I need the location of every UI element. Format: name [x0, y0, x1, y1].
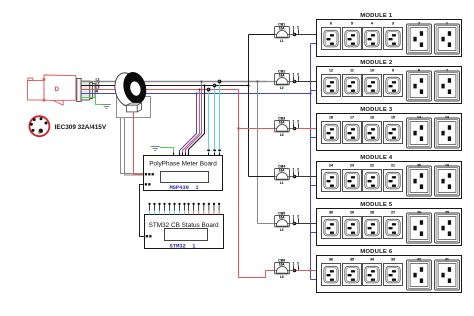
- outlet 33 (C13): [384, 258, 403, 286]
- svg-text:16A: 16A: [279, 216, 286, 220]
- voltage sense cyan wires: [208, 90, 210, 156]
- svg-text:12: 12: [329, 69, 333, 73]
- svg-text:L3: L3: [280, 133, 284, 137]
- svg-text:PolyPhase Meter Board: PolyPhase Meter Board: [149, 161, 217, 168]
- svg-text:2: 2: [297, 262, 299, 266]
- svg-text:2: 2: [297, 215, 299, 219]
- svg-text:MODULE 3: MODULE 3: [360, 107, 393, 113]
- module 5 outlet board: [317, 202, 462, 245]
- CT mounting box: [117, 97, 151, 118]
- STM32 CB Status Board U3: [145, 215, 224, 250]
- pin 12: [203, 203, 205, 215]
- svg-text:IEC309 32A/415V: IEC309 32A/415V: [55, 124, 107, 131]
- svg-text:34: 34: [370, 258, 374, 262]
- svg-text:10: 10: [370, 69, 374, 73]
- module 2 outlet board: [317, 60, 462, 103]
- node L2: [218, 80, 222, 84]
- node L1: [213, 84, 217, 88]
- outlet 32 (C19): [407, 258, 432, 291]
- outlet 12 (C13): [322, 69, 341, 97]
- wire L2 (grey phase): [81, 81, 267, 83]
- svg-text:9: 9: [392, 69, 394, 73]
- outlet 31 (C19): [435, 258, 460, 291]
- outlet 2 (C19): [407, 22, 432, 55]
- svg-text:21: 21: [391, 164, 395, 168]
- STM32 left pins: [146, 235, 152, 237]
- svg-text:2: 2: [297, 120, 299, 124]
- outlet 29 (C13): [343, 211, 362, 239]
- outlet 24 (C13): [322, 164, 341, 192]
- circuit breaker CB1 16A L1: [249, 22, 318, 43]
- green earth wire to meter board: [160, 148, 174, 156]
- svg-text:8: 8: [418, 69, 420, 73]
- outlet 21 (C13): [384, 164, 403, 192]
- module 3 outlet board: [317, 107, 462, 150]
- module 6 outlet board: [317, 249, 462, 292]
- module 1 outlet board: [317, 13, 462, 56]
- svg-text:1: 1: [293, 215, 295, 219]
- outlet 16 (C13): [363, 116, 382, 144]
- svg-text:24: 24: [329, 164, 333, 168]
- svg-text:2: 2: [297, 73, 299, 77]
- svg-text:L2: L2: [280, 228, 284, 232]
- svg-text:11: 11: [350, 69, 354, 73]
- svg-text:35: 35: [350, 258, 354, 262]
- svg-text:16A: 16A: [279, 121, 286, 125]
- svg-text:MODULE 5: MODULE 5: [360, 202, 393, 208]
- svg-text:6: 6: [330, 22, 332, 26]
- wire L1 (black phase): [81, 85, 249, 87]
- neutral bus vertical: [310, 44, 312, 280]
- svg-text:20: 20: [417, 164, 421, 168]
- outlet 20 (C19): [407, 164, 432, 197]
- svg-text:30: 30: [329, 211, 333, 215]
- outlet 4 (C13): [363, 22, 382, 50]
- pin 14: [213, 203, 215, 215]
- pin 1: [148, 203, 150, 215]
- svg-text:16A: 16A: [279, 74, 286, 78]
- svg-text:15: 15: [391, 116, 395, 120]
- svg-text:MSP430 1: MSP430 1: [169, 185, 198, 191]
- wire L3 (red phase): [81, 89, 239, 91]
- svg-text:17: 17: [350, 116, 354, 120]
- outlet 11 (C13): [343, 69, 362, 97]
- svg-text:D: D: [55, 87, 60, 93]
- svg-text:L3: L3: [280, 275, 284, 279]
- svg-text:N: N: [96, 90, 99, 94]
- svg-text:STM32 CB Status Board: STM32 CB Status Board: [149, 222, 219, 229]
- svg-text:25: 25: [445, 211, 449, 215]
- pin 10: [192, 203, 194, 215]
- svg-text:16A: 16A: [279, 27, 286, 31]
- outlet 28 (C13): [363, 211, 382, 239]
- svg-text:36: 36: [329, 258, 333, 262]
- L1 feeder vertical to CB1/CB4: [248, 35, 250, 177]
- PolyPhase Meter Board U2: [144, 156, 223, 191]
- outlet 5 (C13): [343, 22, 362, 50]
- CT secondary wire pair: [121, 118, 144, 174]
- earth symbol (meter board): [151, 147, 160, 151]
- svg-text:L1: L1: [280, 39, 284, 43]
- svg-text:2: 2: [297, 168, 299, 172]
- pin 7: [178, 203, 180, 215]
- meter board top pins: [173, 150, 221, 156]
- pin 2: [153, 203, 155, 215]
- svg-text:4: 4: [371, 22, 373, 26]
- svg-text:16: 16: [370, 116, 374, 120]
- outlet 3 (C13): [384, 22, 403, 50]
- svg-text:MODULE 1: MODULE 1: [360, 13, 393, 19]
- outlet 36 (C13): [322, 258, 341, 286]
- pin 6: [173, 203, 175, 215]
- svg-text:26: 26: [417, 211, 421, 215]
- circuit breaker CB4 16A L1: [249, 164, 318, 185]
- pin 11: [198, 203, 200, 215]
- meter board left pins row1: [145, 173, 154, 175]
- outlet 17 (C13): [343, 116, 362, 144]
- circuit breaker CB6 16A L3: [266, 258, 318, 279]
- svg-text:19: 19: [445, 164, 449, 168]
- svg-text:L1: L1: [280, 181, 284, 185]
- IEC309 connector face: [29, 116, 49, 136]
- svg-text:1: 1: [446, 22, 448, 26]
- circuit breaker CB2 16A L2: [267, 69, 318, 90]
- svg-text:1: 1: [293, 26, 295, 30]
- svg-text:1: 1: [293, 120, 295, 124]
- circuit breaker CB3 16A L3: [239, 116, 318, 137]
- outlet 9 (C13): [384, 69, 403, 97]
- svg-text:2: 2: [418, 22, 420, 26]
- outlet 7 (C19): [435, 69, 460, 102]
- svg-text:16A: 16A: [279, 263, 286, 267]
- outlet 35 (C13): [343, 258, 362, 286]
- tap L3 to meter (red): [183, 90, 200, 156]
- svg-text:1: 1: [293, 73, 295, 77]
- svg-text:2: 2: [297, 26, 299, 30]
- svg-text:MODULE 2: MODULE 2: [360, 60, 393, 66]
- svg-text:18: 18: [329, 116, 333, 120]
- IEC309 plug P1: [28, 75, 79, 105]
- neutral taps into modules: [311, 43, 318, 45]
- outlet 13 (C19): [435, 116, 460, 149]
- pin 9: [187, 203, 189, 215]
- pin 5: [168, 203, 170, 215]
- outlet 30 (C13): [322, 211, 341, 239]
- circuit breaker CB5 16A L2: [258, 211, 318, 232]
- svg-text:22: 22: [370, 164, 374, 168]
- svg-text:STM32 1: STM32 1: [170, 243, 196, 249]
- L2 feeder vertical to CB5: [257, 82, 259, 224]
- svg-text:5: 5: [351, 22, 353, 26]
- outlet 19 (C19): [435, 164, 460, 197]
- outlet 1 (C19): [435, 22, 460, 55]
- svg-text:MODULE 6: MODULE 6: [360, 249, 393, 255]
- svg-text:13: 13: [445, 116, 449, 120]
- svg-text:32: 32: [417, 258, 421, 262]
- svg-text:7: 7: [446, 69, 448, 73]
- outlet 26 (C19): [407, 211, 432, 244]
- outlet 27 (C13): [384, 211, 403, 239]
- svg-text:16A: 16A: [279, 169, 286, 173]
- svg-text:1: 1: [293, 262, 295, 266]
- wire N (blue neutral): [81, 93, 311, 95]
- pin 8: [183, 203, 185, 215]
- wire E (green earth): [81, 98, 106, 105]
- svg-text:29: 29: [350, 211, 354, 215]
- svg-text:MODULE 4: MODULE 4: [360, 155, 393, 161]
- CT terminal block: [126, 103, 141, 112]
- module 4 outlet board: [317, 155, 462, 198]
- node L3: [207, 88, 211, 92]
- current transformer CT1 (toroid): [112, 68, 150, 108]
- tap L2 to meter (purple): [186, 82, 202, 156]
- svg-text:23: 23: [350, 164, 354, 168]
- pin 4: [163, 203, 165, 215]
- tap L1 to meter (black): [189, 86, 205, 156]
- junction dots on phase lines: [195, 92, 197, 94]
- pin 13: [208, 203, 210, 215]
- outlet 25 (C19): [435, 211, 460, 244]
- svg-text:1: 1: [293, 168, 295, 172]
- svg-text:3: 3: [392, 22, 394, 26]
- outlet 23 (C13): [343, 164, 362, 192]
- outlet 22 (C13): [363, 164, 382, 192]
- svg-text:31: 31: [445, 258, 449, 262]
- plug cable gland: [77, 78, 95, 101]
- outlet 14 (C19): [407, 116, 432, 149]
- pin 15: [218, 203, 220, 215]
- svg-text:27: 27: [391, 211, 395, 215]
- svg-text:33: 33: [391, 258, 395, 262]
- meter board left pins row2: [145, 183, 151, 185]
- outlet 15 (C13): [384, 116, 403, 144]
- svg-text:L2: L2: [280, 86, 284, 90]
- wire meter to STM32 board: [140, 185, 145, 237]
- outlet 18 (C13): [322, 116, 341, 144]
- outlet 10 (C13): [363, 69, 382, 97]
- CT red sense wire: [134, 112, 144, 174]
- tap N to meter (blue): [180, 94, 197, 156]
- outlet 34 (C13): [363, 258, 382, 286]
- outlet 6 (C13): [322, 22, 341, 50]
- outlet 8 (C19): [407, 69, 432, 102]
- svg-text:14: 14: [417, 116, 421, 120]
- pin 3: [158, 203, 160, 215]
- ground symbol (plug earth): [102, 105, 111, 109]
- svg-text:28: 28: [370, 211, 374, 215]
- L3 feeder vertical to CB3/CB6: [239, 90, 266, 278]
